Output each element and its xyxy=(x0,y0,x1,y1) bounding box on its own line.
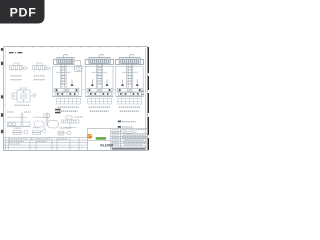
fitting sketch S3: note xyxy=(60,127,73,129)
svg-text:FLUOR: FLUOR xyxy=(100,143,113,147)
client logo oval xyxy=(121,129,137,133)
installation detail D3 (same pattern as D2) xyxy=(115,55,143,112)
revision marks (bold dashes, centre) xyxy=(55,109,61,114)
fitting sketch S1 xyxy=(13,130,28,134)
detail D1: junction box head xyxy=(54,58,74,65)
stanchion detail C xyxy=(62,116,80,127)
title block xyxy=(87,129,147,151)
detail D2: caption xyxy=(89,107,110,111)
detail D2: right drain valve xyxy=(106,80,109,87)
detail D1: side instrument with gauge xyxy=(74,61,82,72)
pipe mounting sketch B xyxy=(33,113,59,128)
notes list (right) xyxy=(118,121,136,128)
detail D2: base plate xyxy=(86,95,113,97)
fitting sketch S2 xyxy=(33,126,47,134)
match line (bold dashed, top-left) xyxy=(9,52,22,54)
label for sketch L1 xyxy=(11,76,22,80)
drawing sheet frame (border + ticks) xyxy=(4,47,148,151)
detail D1: drain valve xyxy=(71,80,74,87)
detail D1: base plate xyxy=(53,95,82,97)
zone reference labels (left margin) xyxy=(1,48,3,133)
detail D2: left drain valve xyxy=(91,80,94,87)
detail D2: base terminal strip xyxy=(88,92,111,95)
detail D2: terminal band xyxy=(87,88,112,92)
revision table entries xyxy=(9,139,68,144)
title block text rows xyxy=(112,130,146,145)
label for gauge block M1 xyxy=(15,104,30,106)
zone marks near right border xyxy=(141,91,144,96)
detail D1: caption xyxy=(58,107,79,111)
pipe mounting sketch A: labels xyxy=(7,111,31,113)
installation detail D2 xyxy=(85,55,113,112)
detail D1: base terminal strip xyxy=(55,92,78,95)
detail D1: support column xyxy=(56,64,71,88)
drawing number row (dark) xyxy=(112,148,146,150)
fitting sketch S1: note xyxy=(14,127,21,129)
detail D2: support column xyxy=(92,64,107,88)
contractor logo (orange roundel) xyxy=(87,134,92,139)
stanchion detail C: side note xyxy=(75,116,84,118)
gauge block M1 xyxy=(12,88,36,102)
label for sketch L2 xyxy=(34,76,45,80)
svg-text:PDF: PDF xyxy=(10,6,37,20)
fitting sketch S3 xyxy=(58,131,71,135)
PDF badge xyxy=(0,0,45,24)
tubing manifold sketch L1 xyxy=(10,63,28,71)
fitting sketch S2: note xyxy=(33,127,40,129)
interconnecting conduit stubs xyxy=(82,67,116,90)
installation detail D1: enclosure outline xyxy=(53,67,82,97)
detail D1: vent stem xyxy=(64,55,68,58)
detail D2: junction box head xyxy=(85,58,113,65)
revision table xyxy=(4,138,88,151)
detail D1: dimension table xyxy=(57,98,81,104)
pipe mounting sketch A xyxy=(7,113,31,127)
page fold dark edge (right) xyxy=(147,47,149,150)
detail D2: enclosure outline xyxy=(86,67,113,97)
tubing manifold sketch L2 xyxy=(33,63,51,71)
detail D2: dimension table xyxy=(88,98,112,104)
contractor name (green wordmark) xyxy=(96,137,106,139)
detail D2: vent stem xyxy=(99,55,103,58)
detail D2: column clamp bands xyxy=(97,67,102,85)
detail D1: terminal band xyxy=(54,88,79,92)
detail D1: column clamp bands xyxy=(61,67,66,85)
